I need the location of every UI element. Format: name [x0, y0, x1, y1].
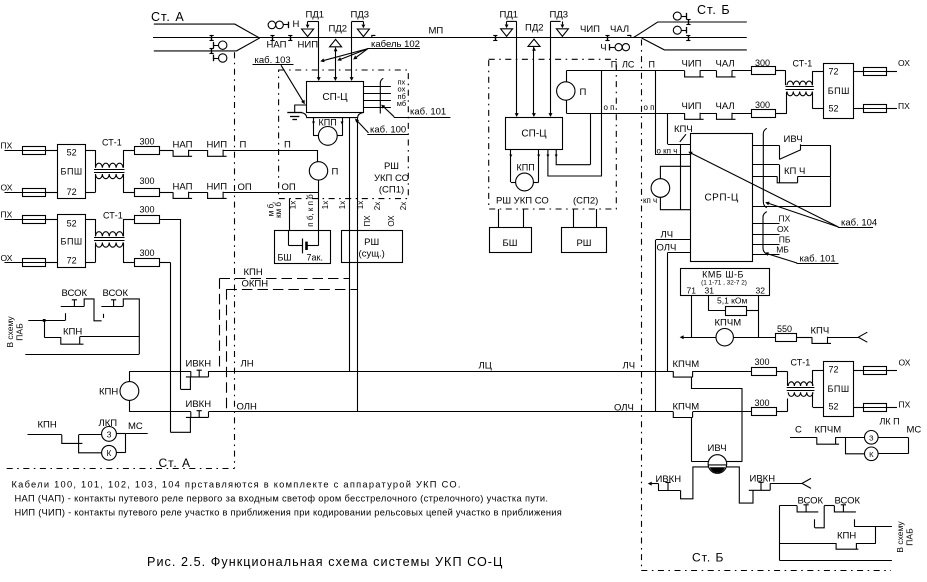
repeat relay P SP2	[557, 82, 575, 100]
svg-text:о п: о п	[604, 103, 615, 112]
fuse PX St.B lower	[853, 407, 863, 409]
signal N (entrance) symbol	[268, 21, 276, 29]
svg-text:ПД3: ПД3	[351, 10, 370, 21]
cable wire PD3B to SP-Ts2	[550, 21, 552, 115]
svg-text:ОП: ОП	[238, 182, 252, 193]
wire OLN-OLCh	[129, 411, 190, 413]
wire SP-Ts to LN (long)	[349, 118, 351, 372]
insulated joint ChIP-ChAL	[607, 35, 609, 40]
track bottom siding St.B	[642, 38, 747, 50]
vertical LCh row to OLCh wire	[655, 240, 657, 412]
svg-text:КПН: КПН	[63, 326, 82, 337]
svg-text:300: 300	[140, 204, 155, 214]
svg-text:КПЧМ: КПЧМ	[673, 359, 700, 370]
svg-text:ВСОК: ВСОК	[835, 496, 861, 507]
svg-text:52: 52	[67, 148, 77, 158]
svg-text:КПН: КПН	[99, 387, 118, 398]
cable wire PD3 to SP-Ts	[351, 22, 353, 80]
insulated joint main St.A	[211, 35, 213, 40]
half joint mark ChAL	[627, 35, 631, 37]
svg-text:ПХ: ПХ	[779, 213, 791, 223]
dash-dot enclosure RSh UKP SO SP2	[489, 59, 617, 209]
wire LN continue	[209, 371, 674, 373]
svg-text:ОХ: ОХ	[899, 358, 911, 368]
svg-text:300: 300	[140, 248, 155, 258]
bottom wire PAB St.B	[779, 560, 892, 562]
wire o-p to o-kp-ch row	[655, 71, 657, 155]
cable wire PD2B to SP-Ts2	[533, 47, 535, 115]
svg-text:2х: 2х	[399, 202, 408, 210]
dashed wire KPN vertical	[219, 278, 221, 371]
svg-text:Рис. 2.5. Функциональная схема: Рис. 2.5. Функциональная схема системы У…	[147, 555, 503, 569]
wire P relay bottom to BSh	[318, 192, 320, 230]
svg-text:НИП: НИП	[207, 139, 228, 150]
wire SP2 to BSh2 right	[523, 209, 525, 228]
track receiver SP-Ts St.B	[506, 118, 563, 150]
svg-text:СТ-1: СТ-1	[102, 138, 122, 148]
svg-text:БШ: БШ	[278, 253, 292, 263]
svg-text:каб. 104: каб. 104	[841, 217, 877, 228]
svg-text:32: 32	[756, 285, 766, 295]
cable brace kab101 right	[763, 212, 767, 254]
wire to PAB scheme St.A lower	[25, 354, 139, 356]
wire KPChM row with left arrow	[680, 335, 684, 339]
svg-text:МС: МС	[907, 424, 922, 435]
wire SP-Ts to KPP right	[342, 118, 344, 136]
dash-dot enclosure RSh UKP SO SP1	[279, 70, 409, 199]
fuse FU2	[5, 192, 23, 194]
svg-text:БПШ: БПШ	[61, 236, 83, 246]
svg-text:(сущ.): (сущ.)	[359, 249, 385, 260]
svg-text:300: 300	[755, 357, 770, 367]
dash-dot boundary station B bottom	[641, 570, 891, 572]
half joint mark right of PD3	[372, 35, 376, 37]
svg-text:ПД2: ПД2	[525, 23, 544, 34]
svg-text:ЛЧ: ЛЧ	[623, 360, 636, 371]
dash-dot boundary station B left edge	[641, 40, 643, 571]
svg-text:ЛН: ЛН	[241, 359, 254, 370]
svg-text:Ч: Ч	[600, 43, 606, 54]
svg-text:К: К	[107, 449, 112, 458]
svg-text:каб. 101: каб. 101	[410, 107, 446, 118]
wire pin32 down	[758, 296, 760, 338]
svg-text:ПД3: ПД3	[550, 10, 569, 21]
svg-text:НАП: НАП	[267, 40, 287, 51]
blade wire to IVCh left	[691, 418, 693, 462]
svg-text:ЧИП: ЧИП	[580, 24, 600, 35]
svg-text:ОХ: ОХ	[387, 215, 396, 227]
svg-text:СТ-1: СТ-1	[103, 210, 123, 220]
svg-text:БПШ: БПШ	[827, 384, 849, 394]
svg-text:НАП: НАП	[173, 139, 193, 150]
svg-text:ВСОК: ВСОК	[62, 288, 88, 299]
svg-text:КПЧМ: КПЧМ	[715, 318, 742, 329]
dwarf signal St.A lower	[213, 55, 215, 62]
svg-text:П: П	[332, 167, 339, 178]
svg-text:ПХ: ПХ	[1, 210, 13, 220]
svg-text:КП Ч: КП Ч	[784, 166, 805, 177]
insulated joint NIP	[290, 35, 292, 40]
svg-text:КПЧМ: КПЧМ	[815, 424, 842, 435]
svg-text:П: П	[580, 87, 587, 98]
svg-text:К: К	[869, 450, 874, 459]
svg-text:ПАБ: ПАБ	[15, 323, 25, 341]
svg-text:ОХ: ОХ	[777, 224, 789, 234]
track top siding St.B	[634, 22, 747, 38]
power supply BPSh St.B upper	[824, 64, 854, 119]
wire P frame right vertical	[601, 71, 603, 176]
wire IVCh lower-right to IVKN	[727, 467, 753, 503]
svg-text:РШ: РШ	[384, 161, 399, 172]
track relay block SRP-Ts	[691, 134, 753, 262]
svg-text:БПШ: БПШ	[828, 86, 850, 96]
svg-text:ЧАЛ: ЧАЛ	[716, 59, 735, 70]
svg-text:Ст. А: Ст. А	[151, 10, 185, 24]
svg-text:Кабели 100, 101, 102, 103, 104: Кабели 100, 101, 102, 103, 104 прставляю…	[12, 479, 462, 489]
svg-text:300: 300	[140, 137, 155, 147]
wire IVCh upper-right	[727, 461, 742, 463]
floating blade tick St.B	[814, 519, 816, 528]
cable brace kab101 left	[380, 78, 383, 113]
svg-text:СТ-1: СТ-1	[793, 58, 813, 68]
wire P row1 to relay P	[223, 150, 318, 152]
svg-text:УКП СО: УКП СО	[374, 173, 409, 184]
svg-text:72: 72	[67, 255, 77, 265]
svg-text:МС: МС	[128, 421, 143, 432]
svg-text:ПД2: ПД2	[329, 24, 348, 35]
svg-text:71: 71	[687, 285, 697, 295]
cable brace kab104	[763, 128, 767, 208]
svg-text:(СП2): (СП2)	[573, 196, 598, 207]
svg-text:300: 300	[755, 100, 770, 110]
fuse FU3	[5, 219, 23, 221]
wire to ST-1 St.B upper	[775, 70, 785, 72]
wire o-p junction vertical	[590, 113, 592, 165]
svg-text:КПП: КПП	[319, 117, 337, 127]
svg-text:о п: о п	[644, 103, 655, 112]
svg-text:КПП: КПП	[517, 162, 535, 172]
svg-text:КПН: КПН	[38, 420, 57, 431]
svg-text:км б: км б	[274, 202, 283, 218]
svg-text:КМБ Ш-Б: КМБ Ш-Б	[702, 270, 744, 280]
svg-text:7ак.: 7ак.	[307, 253, 323, 263]
cable wire PD1 to SP-Ts	[318, 22, 320, 80]
svg-text:СП-Ц: СП-Ц	[322, 92, 348, 103]
svg-text:МБ: МБ	[776, 244, 789, 254]
svg-text:ОХ: ОХ	[1, 183, 13, 193]
svg-text:РШ УКП СО: РШ УКП СО	[496, 196, 549, 207]
wire pin71 down	[691, 296, 693, 338]
svg-text:ПД1: ПД1	[306, 10, 325, 21]
wire IVCh lower-left to IVKN	[681, 467, 709, 499]
battery cabinet BSh St.B	[490, 228, 532, 253]
SRP right pins PX OX PB MB	[753, 223, 780, 225]
svg-text:72: 72	[828, 66, 838, 76]
svg-text:52: 52	[67, 218, 77, 228]
svg-text:С: С	[795, 424, 802, 435]
svg-text:Ст. Б: Ст. Б	[697, 3, 731, 17]
fuse FU1	[5, 150, 23, 152]
dashed wire OKPN vertical	[226, 289, 228, 412]
svg-text:ЧАЛ: ЧАЛ	[610, 24, 629, 35]
svg-text:Ст. Б: Ст. Б	[692, 551, 724, 565]
svg-text:ОП: ОП	[282, 182, 296, 193]
fork branch right	[858, 332, 867, 342]
svg-text:НИП: НИП	[298, 40, 319, 51]
svg-text:ВСОК: ВСОК	[798, 496, 824, 507]
fuse OX St.B upper	[854, 71, 864, 73]
svg-text:В схему: В схему	[5, 316, 15, 348]
insulated joint NAP-NIP	[272, 35, 274, 40]
SRP right pin row2	[753, 164, 780, 166]
power supply BPSh1	[58, 145, 86, 199]
right loop vertical	[830, 145, 832, 206]
blade wire to IVCh right	[692, 377, 743, 462]
svg-text:550: 550	[777, 324, 792, 334]
svg-text:ЧИП: ЧИП	[682, 59, 702, 70]
hook row3 to IVKN	[181, 377, 191, 390]
svg-text:(СП1): (СП1)	[379, 185, 404, 196]
dwarf signal St.A upper	[213, 42, 215, 49]
svg-text:ПХ: ПХ	[363, 215, 372, 227]
svg-text:П: П	[284, 139, 291, 150]
wire OLN continue	[209, 411, 674, 413]
wire SP2 to BSh2 left	[498, 209, 500, 228]
wire OP row2	[223, 192, 318, 194]
cable 101 pointer left	[394, 117, 451, 119]
svg-text:72: 72	[828, 364, 838, 374]
battery cell symbol	[288, 230, 290, 245]
svg-text:52: 52	[828, 104, 838, 114]
svg-text:Н: Н	[293, 19, 300, 30]
svg-text:ПХ: ПХ	[899, 400, 911, 410]
wire o-kp-ch into SRP-Ts	[655, 154, 690, 156]
svg-text:1х: 1х	[338, 201, 347, 209]
SP-Ts right pins px ox pb mb	[363, 86, 391, 88]
svg-text:Ст. А: Ст. А	[159, 456, 192, 470]
wire SP2 to RSh2 right	[596, 209, 598, 228]
ground symbol	[295, 105, 307, 112]
svg-text:ОХ: ОХ	[898, 58, 910, 68]
wire LN-LTs-LCh	[129, 371, 190, 373]
svg-text:1х: 1х	[356, 201, 365, 209]
track bottom siding St.A	[154, 38, 260, 51]
svg-text:ОХ: ОХ	[1, 253, 13, 263]
svg-text:РШ: РШ	[576, 238, 591, 249]
insulated joint St.B near PD1	[495, 35, 497, 40]
wire pin31 to resistor	[708, 296, 710, 311]
wire OLCh to 300	[693, 411, 752, 413]
wire row4 to IVKN hook	[159, 262, 170, 264]
svg-text:ИВКН: ИВКН	[186, 358, 212, 369]
svg-text:ВСОК: ВСОК	[103, 288, 129, 299]
lamp K St.B	[846, 437, 865, 454]
svg-text:П: П	[649, 60, 655, 70]
wire SP-Ts2 to KPP2 left	[510, 149, 512, 182]
left vertical PAB St.B	[779, 506, 781, 560]
wire o-p SP2	[566, 113, 684, 115]
svg-text:1х: 1х	[321, 201, 330, 209]
insulated joint bottom St.A	[211, 48, 213, 53]
relay cabinet RSh St.B	[562, 228, 607, 253]
wire to PAB scheme St.A upper	[28, 320, 65, 322]
svg-text:ПХ: ПХ	[898, 101, 910, 111]
floating blade tick	[103, 314, 105, 318]
track top siding St.A	[154, 24, 259, 38]
svg-text:НИП: НИП	[207, 181, 228, 192]
svg-text:каб. 100: каб. 100	[370, 124, 406, 135]
track relay P St.B frame	[566, 70, 684, 72]
relay cabinet RSh existing	[342, 231, 403, 263]
dwarf signal St.B upper	[673, 12, 681, 20]
svg-text:З: З	[869, 433, 874, 442]
svg-text:КПЧМ: КПЧМ	[673, 401, 700, 412]
wire row3 to IVKN hook	[159, 219, 180, 221]
dash-dot boundary station A	[234, 52, 236, 468]
svg-text:ПАБ: ПАБ	[905, 528, 915, 546]
vertical kpch network	[680, 144, 682, 209]
svg-text:31: 31	[705, 285, 715, 295]
wire SP-Ts to KPP left	[313, 118, 315, 136]
label St.A boundary	[156, 455, 200, 468]
svg-text:З: З	[107, 430, 112, 439]
svg-text:2х: 2х	[373, 202, 382, 210]
svg-text:72: 72	[67, 187, 77, 197]
svg-text:КПН: КПН	[837, 531, 856, 542]
svg-text:БПШ: БПШ	[61, 167, 83, 177]
svg-text:ПД1: ПД1	[500, 10, 519, 21]
battery cabinet BSh	[275, 231, 331, 264]
svg-text:ПБ: ПБ	[779, 234, 791, 244]
svg-text:БШ: БШ	[503, 238, 518, 249]
cable wire PD2 to SP-Ts	[335, 48, 337, 80]
power supply BPSh2	[58, 215, 86, 268]
lamp K St.A	[79, 443, 102, 452]
svg-text:1х: 1х	[289, 201, 298, 209]
lamp Z St.B	[836, 437, 865, 439]
svg-text:ЧИП: ЧИП	[682, 101, 702, 112]
cable 100 pointer	[355, 119, 359, 123]
power supply BPSh St.B lower	[824, 362, 854, 417]
svg-text:ЛКП: ЛКП	[99, 418, 118, 429]
wire VSOK2 to PAB St.B	[854, 519, 856, 527]
track receiver SP-Ts St.A	[307, 82, 364, 113]
svg-text:СП-Ц: СП-Ц	[521, 129, 547, 140]
svg-text:СТ-1: СТ-1	[791, 358, 811, 368]
svg-text:НИП (ЧИП) - контакты путевого: НИП (ЧИП) - контакты путевого реле участ…	[15, 507, 563, 517]
main track MP line	[153, 37, 747, 39]
insulated joint St.B main	[688, 35, 690, 40]
wire SP-Ts to OLN (long)	[357, 118, 359, 412]
wire to ST-1 St.B lower	[775, 113, 787, 115]
svg-text:кп ч: кп ч	[643, 196, 657, 205]
svg-text:ЛК П: ЛК П	[880, 417, 900, 427]
svg-text:МП: МП	[429, 26, 444, 37]
fuse FU4	[5, 262, 23, 264]
wire SP-Ts2 pin to o-p	[556, 149, 590, 165]
svg-text:мб: мб	[397, 99, 406, 108]
svg-text:СРП-Ц: СРП-Ц	[704, 193, 738, 204]
svg-text:п б, к п б: п б, к п б	[306, 194, 315, 227]
svg-text:ИВКН: ИВКН	[186, 399, 212, 410]
insulated joint St.B top siding	[688, 19, 690, 24]
svg-text:5,1 кОм: 5,1 кОм	[717, 296, 748, 306]
svg-text:П: П	[240, 139, 247, 150]
cable brace under SP-Ts	[301, 112, 364, 117]
svg-text:300: 300	[140, 176, 155, 186]
svg-text:ЧАЛ: ЧАЛ	[716, 101, 735, 112]
svg-text:ИВЧ: ИВЧ	[784, 134, 803, 145]
svg-text:ЛС: ЛС	[622, 59, 635, 69]
svg-text:КПЧ: КПЧ	[811, 325, 830, 336]
vertical OLCh row to LCh wire	[667, 252, 669, 371]
svg-text:КПЧ: КПЧ	[674, 124, 693, 135]
svg-text:В схему: В схему	[895, 521, 905, 553]
fuse PX St.B upper	[854, 108, 864, 110]
wire LCh to 300	[693, 371, 752, 373]
svg-text:300: 300	[755, 398, 770, 408]
cable wire PD1B to SP-Ts2	[516, 21, 518, 115]
svg-text:РШ: РШ	[364, 237, 379, 248]
dwarf signal St.B lower	[673, 26, 681, 34]
fuse OX St.B lower	[853, 370, 863, 372]
wire mb-kmb to BSh	[289, 199, 291, 231]
svg-text:ЛЦ: ЛЦ	[479, 360, 492, 371]
svg-text:ПХ: ПХ	[1, 141, 13, 151]
block KMB Sh-B	[681, 269, 770, 296]
track relay P St.A	[317, 150, 319, 162]
fork branch IVKN	[802, 478, 811, 488]
svg-text:ИВЧ: ИВЧ	[708, 443, 727, 454]
svg-text:52: 52	[828, 402, 838, 412]
wire SP-Ts2 pin to P frame (B)	[548, 149, 602, 176]
hook row4 to IVKN2	[170, 417, 190, 432]
wire SP-Ts2 to KPP2 right	[538, 149, 540, 182]
wire IVCh upper-left	[692, 461, 709, 463]
SRP right pin row4 long	[753, 206, 831, 208]
svg-text:П: П	[611, 59, 617, 69]
wire SP2 to RSh2 left	[573, 209, 575, 228]
svg-text:НАП (ЧАП) - контакты путевого: НАП (ЧАП) - контакты путевого реле перво…	[15, 494, 549, 504]
svg-text:НАП: НАП	[173, 181, 193, 192]
svg-text:КПН: КПН	[244, 267, 263, 278]
svg-text:ОКПН: ОКПН	[242, 278, 269, 289]
